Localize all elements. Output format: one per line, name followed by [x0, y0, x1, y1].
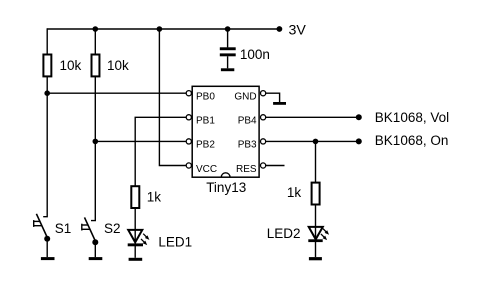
svg-text:1k: 1k: [147, 190, 162, 205]
svg-text:LED2: LED2: [267, 226, 301, 241]
svg-text:10k: 10k: [60, 58, 82, 73]
ground below S1: [41, 257, 55, 260]
resistor R4 1k: [287, 183, 320, 205]
resistor R2 10k: [92, 55, 130, 77]
node BK1068 Vol terminal: [356, 114, 362, 120]
label BK1068, Vol: [375, 110, 449, 125]
wire R3 to LED1 to ground: [134, 209, 136, 258]
label Tiny13: [206, 180, 246, 195]
wire S1 to ground: [46, 239, 48, 257]
wire R4 to LED2 to ground: [315, 205, 317, 257]
svg-text:1k: 1k: [287, 185, 302, 200]
pin PB2 (circle + label): [186, 139, 215, 151]
svg-text:3V: 3V: [289, 22, 307, 38]
ground at GND pin: [273, 102, 286, 105]
node PB3/R4 junction: [313, 139, 319, 145]
pin PB3 (circle + label): [238, 139, 266, 151]
wire PB3 junction down to R4: [315, 141, 317, 182]
svg-text:VCC: VCC: [196, 164, 217, 175]
ground below S2: [89, 257, 103, 260]
node S2 bottom terminal: [92, 239, 98, 245]
wire R1 down to S1: [43, 77, 47, 217]
wire VCC from rail to pin VCC: [159, 29, 186, 166]
svg-text:S2: S2: [104, 221, 121, 236]
capacitor C1 100n: [220, 47, 270, 62]
label LED1: [158, 234, 192, 249]
pin PB1 (circle + label): [186, 115, 215, 127]
label LED2: [267, 226, 301, 241]
node rail/C1 junction: [225, 26, 231, 32]
wire rail to R2: [94, 29, 96, 54]
wire rail to R1: [46, 28, 48, 54]
svg-text:100n: 100n: [240, 47, 270, 62]
wire C1 to ground: [227, 56, 229, 68]
node S1 bottom terminal: [44, 236, 50, 242]
pin PB0 (circle + label): [186, 91, 215, 103]
wire GND pin to ground: [266, 93, 280, 102]
label 3V: [289, 22, 307, 38]
resistor R3 1k: [131, 186, 161, 208]
node R1/PB0 junction: [44, 90, 50, 96]
svg-text:PB4: PB4: [238, 116, 257, 127]
ground below LED1: [129, 258, 143, 261]
pin GND (circle + label): [234, 91, 265, 103]
label S2: [104, 221, 121, 236]
wire rail to C1: [227, 29, 229, 47]
svg-text:GND: GND: [234, 92, 256, 103]
svg-text:Tiny13: Tiny13: [206, 180, 246, 195]
node rail/R2 junction: [93, 26, 99, 32]
node BK1068 On terminal: [356, 138, 362, 144]
svg-text:PB1: PB1: [196, 116, 215, 127]
pin RES (circle + label): [236, 163, 266, 175]
wire PB3 to BK1068 On: [266, 140, 359, 142]
svg-text:10k: 10k: [107, 58, 129, 73]
wire R2 down to S2: [91, 77, 95, 221]
node rail/VCC junction: [157, 26, 163, 32]
label S1: [55, 221, 72, 236]
svg-text:PB3: PB3: [238, 140, 257, 151]
wire PB4 to BK1068 Vol: [266, 116, 359, 118]
svg-text:BK1068, On: BK1068, On: [375, 133, 449, 148]
IC U1 Tiny13 body: [192, 86, 259, 177]
node 3V terminal: [277, 26, 283, 32]
wire RES stub: [266, 165, 285, 167]
switch S2: [82, 217, 96, 241]
LED LED2: [308, 227, 329, 242]
svg-text:PB2: PB2: [196, 140, 215, 151]
wire PB1 to R3: [135, 117, 186, 186]
svg-text:S1: S1: [55, 221, 72, 236]
wire PB0: [47, 92, 186, 94]
svg-text:BK1068, Vol: BK1068, Vol: [375, 110, 449, 125]
resistor R1 10k: [43, 55, 81, 77]
wire 3V power rail: [47, 28, 279, 30]
wire S2 to ground: [94, 242, 96, 257]
svg-text:PB0: PB0: [196, 92, 215, 103]
pin VCC (circle + label): [186, 163, 217, 175]
switch S1: [34, 214, 48, 238]
label BK1068, On: [375, 133, 449, 148]
wire PB2: [95, 140, 186, 142]
ground below LED2: [309, 257, 322, 260]
svg-text:LED1: LED1: [158, 234, 192, 249]
ground below C1: [221, 68, 234, 71]
node R2/PB2 junction: [93, 139, 99, 145]
svg-text:RES: RES: [236, 164, 257, 175]
LED LED1: [128, 230, 150, 246]
pin PB4 (circle + label): [238, 115, 266, 127]
